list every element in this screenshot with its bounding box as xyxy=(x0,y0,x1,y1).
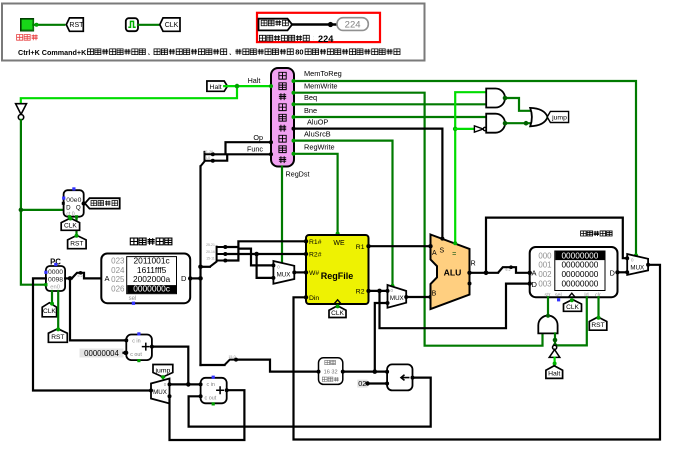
wire data D out to mmux xyxy=(618,271,628,273)
tag Halt (near controller) xyxy=(207,81,228,91)
svg-text:Halt: Halt xyxy=(248,76,261,85)
svg-text:RST: RST xyxy=(51,334,64,341)
counter display 224 xyxy=(337,18,368,31)
svg-text:W#: W# xyxy=(309,270,319,277)
tag jump (bottom) xyxy=(153,365,173,378)
splitter op/func xyxy=(201,151,213,166)
tag total-cycle-count (banner) xyxy=(259,19,293,31)
wire ALU R out with jog to data mem A xyxy=(470,272,499,274)
AND gate A2 (Bne & not-zero) xyxy=(486,114,505,133)
wire next-PC into PC.D xyxy=(33,278,151,390)
svg-text:0000: 0000 xyxy=(48,269,63,276)
svg-text:02: 02 xyxy=(358,379,366,388)
wire PC+4 row to mux and ADD2 xyxy=(170,383,201,385)
svg-text:D: D xyxy=(532,280,538,289)
wire Func route xyxy=(213,154,271,160)
svg-text:025: 025 xyxy=(111,275,125,284)
wire Halt net xyxy=(224,85,271,87)
svg-text:jump: jump xyxy=(155,368,171,375)
wire ld net xyxy=(555,297,587,345)
svg-text:023: 023 xyxy=(111,257,125,266)
svg-text:Beq: Beq xyxy=(304,93,317,102)
svg-text:sel: sel xyxy=(129,296,137,302)
wire to NOT2 xyxy=(455,128,473,130)
clock source xyxy=(126,18,138,31)
svg-text:MUX: MUX xyxy=(277,271,291,278)
wire ALU R up-and-over to mmux xyxy=(486,218,627,273)
svg-text:R2: R2 xyxy=(356,289,365,296)
tag jump (top right) xyxy=(547,111,568,122)
wire rs to R1# xyxy=(225,241,306,247)
wire sign-ext out xyxy=(343,371,387,373)
svg-text:sel: sel xyxy=(555,292,562,298)
wire MemToReg xyxy=(294,81,636,255)
svg-text:A: A xyxy=(432,250,437,257)
svg-text:026: 026 xyxy=(111,284,125,293)
svg-text:R2#: R2# xyxy=(309,252,322,259)
svg-text:CLK: CLK xyxy=(43,308,56,315)
svg-text:9-2: 9-2 xyxy=(505,268,510,272)
wire ADD1 out xyxy=(152,347,188,385)
inverter NOT1 (PC enable) xyxy=(16,104,27,115)
svg-text:RST: RST xyxy=(591,322,604,329)
tag CLK (data mem) xyxy=(564,300,582,312)
svg-text:Din: Din xyxy=(309,295,319,302)
wire PC reset to RST tag xyxy=(57,291,59,330)
svg-text:0098: 0098 xyxy=(48,276,63,283)
svg-text:=: = xyxy=(452,249,456,258)
reference value text xyxy=(259,35,313,41)
svg-text:ALU: ALU xyxy=(444,267,462,277)
svg-text:R1#: R1# xyxy=(309,239,322,246)
instruction memory ROM xyxy=(130,238,172,245)
svg-text:D: D xyxy=(181,274,187,283)
wire not-halt to A3 xyxy=(554,333,556,345)
tag RST (data mem) xyxy=(589,317,607,330)
wire const4 to ADD1 xyxy=(124,352,127,354)
mux M4 next-pc (west facing) xyxy=(151,379,170,404)
tag RST (top banner) xyxy=(66,18,83,31)
wire RegWrite to RegFile WE xyxy=(294,154,338,234)
svg-text:jump: jump xyxy=(551,115,567,122)
svg-text:024: 024 xyxy=(111,266,125,275)
svg-text:AluOP: AluOP xyxy=(307,117,328,126)
AND gate A1 (Beq & zero) xyxy=(486,89,505,108)
svg-text:S: S xyxy=(439,247,444,254)
tag CLK (top banner) xyxy=(160,18,180,31)
constant 02 xyxy=(357,380,367,388)
wire Bne xyxy=(294,116,486,118)
wire tag to counter display xyxy=(292,23,336,26)
ALU xyxy=(431,235,470,310)
svg-text:AluSrcB: AluSrcB xyxy=(304,130,331,139)
wire A1 out to OR xyxy=(505,98,530,111)
svg-text:MUX: MUX xyxy=(153,389,167,396)
wire RegDst xyxy=(281,167,283,264)
svg-text:RST: RST xyxy=(69,22,84,29)
NOT2 inverter xyxy=(474,126,483,132)
tag CLK (RegFile) xyxy=(329,306,346,318)
svg-text:CLK: CLK xyxy=(331,310,344,317)
svg-text:c in: c in xyxy=(207,382,215,388)
banner frame xyxy=(2,4,425,61)
svg-text:RegWrite: RegWrite xyxy=(304,143,335,152)
svg-text:c out: c out xyxy=(205,396,217,402)
wire PC.Q with splitter jog to instr mem A xyxy=(65,277,72,279)
svg-text:Ctrl+K Command+K: Ctrl+K Command+K xyxy=(18,48,87,57)
wire imm to M2 input xyxy=(375,303,388,372)
svg-text:c out: c out xyxy=(130,352,142,358)
svg-text:MemToReg: MemToReg xyxy=(304,69,342,78)
tag RST (PC) xyxy=(48,329,67,343)
wire Beq xyxy=(294,103,486,105)
AND gate A3 (store enable) xyxy=(538,316,557,334)
svg-text:Bne: Bne xyxy=(304,106,317,115)
label total-reset (red) xyxy=(17,35,38,41)
svg-text:D: D xyxy=(610,269,616,278)
svg-text:RST: RST xyxy=(70,240,83,247)
svg-text:A: A xyxy=(105,274,110,283)
svg-text:RegDst: RegDst xyxy=(286,169,310,178)
wire instr bus D out xyxy=(190,277,200,279)
svg-text:CLK: CLK xyxy=(64,223,77,230)
svg-text:MemWrite: MemWrite xyxy=(304,82,338,91)
adder ADD1 (PC+4) xyxy=(126,335,152,361)
wire counter reset to RST xyxy=(75,217,77,237)
wire const02 to shifter xyxy=(368,382,388,384)
data memory RAM xyxy=(581,231,613,236)
wire R2 to bmux and data D xyxy=(369,290,388,292)
svg-text:CLK: CLK xyxy=(566,304,579,311)
tag CLK (PC) xyxy=(42,303,56,317)
wire ADD2 out loop to M4 input xyxy=(170,390,245,440)
wire instr bus vertical xyxy=(199,166,201,365)
wire rt to R2# and wmux xyxy=(225,253,306,255)
svg-text:5-0: 5-0 xyxy=(205,156,210,160)
svg-text:Q: Q xyxy=(76,205,81,212)
wire OR out to jump tag xyxy=(548,116,552,118)
svg-text:002: 002 xyxy=(538,270,551,279)
wire R1 to ALU A xyxy=(369,245,431,247)
wire M1 out to W# xyxy=(294,271,306,273)
svg-text:0000000c: 0000000c xyxy=(133,283,170,293)
svg-text:en0: en0 xyxy=(50,285,60,291)
svg-text:00e0: 00e0 xyxy=(66,197,81,204)
wire A2 out to OR xyxy=(505,122,530,124)
svg-text:001: 001 xyxy=(538,261,551,270)
controller U1 single-cycle hardwired control xyxy=(271,68,294,167)
wire result bus M3 out to RegFile Din xyxy=(294,265,661,440)
svg-text:WE: WE xyxy=(333,240,345,247)
wire MemWrite xyxy=(294,93,543,346)
shifter shl2 xyxy=(387,364,412,390)
wire A3 out to str xyxy=(547,297,549,316)
svg-text:20-16: 20-16 xyxy=(206,250,215,254)
wire button to RST xyxy=(33,24,64,26)
tag Halt (bottom) xyxy=(546,366,563,379)
svg-text:Op: Op xyxy=(253,133,263,142)
wire Halt tag to NOT3 xyxy=(553,358,555,367)
tag CLK (counter) xyxy=(61,218,79,230)
wire AluSrcB xyxy=(294,141,393,287)
mux M1 regdst xyxy=(273,261,294,284)
svg-text:A: A xyxy=(532,269,537,278)
wire PC.Q branch to adder1 xyxy=(70,278,126,340)
svg-text:224: 224 xyxy=(318,34,334,44)
OR gate O1 xyxy=(530,108,547,126)
svg-text:00000004: 00000004 xyxy=(84,349,119,358)
svg-text:Halt: Halt xyxy=(210,84,222,91)
svg-text:Func: Func xyxy=(247,145,263,154)
svg-text:B: B xyxy=(432,290,437,297)
tag RST (counter) xyxy=(68,235,87,248)
constant 00000004 xyxy=(80,349,124,358)
cycle counter register xyxy=(64,190,84,217)
svg-text:c in: c in xyxy=(132,339,140,345)
reset button xyxy=(21,19,34,31)
svg-text:15-0: 15-0 xyxy=(228,355,235,359)
tag cycle-count (counter) xyxy=(85,198,120,208)
wire Op route xyxy=(213,142,271,154)
svg-text:80: 80 xyxy=(295,47,303,56)
sign extender xyxy=(319,358,343,385)
wire clr to RST xyxy=(597,297,599,318)
svg-text:MUX: MUX xyxy=(390,295,404,302)
svg-text:R: R xyxy=(471,260,476,267)
inverter NOT3 (halt) xyxy=(553,345,557,349)
adder ADD2 (branch target) xyxy=(201,378,227,404)
svg-text:25-21: 25-21 xyxy=(206,243,215,247)
splitter rs/rt/rd xyxy=(210,246,226,267)
wire clock to CLK xyxy=(138,24,158,26)
RegFile xyxy=(306,235,369,304)
svg-text:224: 224 xyxy=(345,20,361,31)
wire M2 out to ALU B xyxy=(406,296,430,298)
svg-text:R1: R1 xyxy=(356,244,365,251)
wire shifter out loop to adder2 xyxy=(189,378,431,427)
svg-text:000: 000 xyxy=(538,251,552,260)
wire rd to wmux xyxy=(225,249,273,266)
red highlight box xyxy=(257,13,380,42)
svg-text:MUX: MUX xyxy=(630,264,644,271)
svg-text:16 32: 16 32 xyxy=(324,369,338,375)
wire ALU zero flag (bright green) xyxy=(455,92,486,243)
svg-text:CLK: CLK xyxy=(165,22,179,29)
mux M3 memtoreg xyxy=(627,254,648,275)
wire NOT1 output to PC enable and cycle counter xyxy=(21,120,46,285)
svg-text:9-2: 9-2 xyxy=(77,274,82,278)
wire AluOP xyxy=(294,129,442,239)
mux M2 alusrcb xyxy=(388,285,407,308)
wire imm to sign extend xyxy=(236,360,319,372)
svg-text:00000000: 00000000 xyxy=(561,279,598,289)
svg-text:15-11: 15-11 xyxy=(206,257,215,261)
svg-text:Halt: Halt xyxy=(548,370,560,377)
wire PC clock to CLK tag xyxy=(51,291,53,304)
svg-text:003: 003 xyxy=(538,280,552,289)
splitter imm 15-0 xyxy=(201,364,225,366)
svg-text:RegFile: RegFile xyxy=(321,271,354,281)
